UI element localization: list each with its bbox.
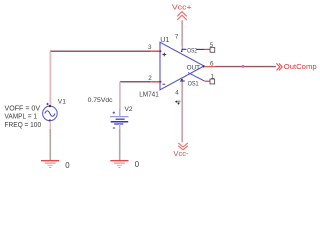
wire pin 4 to Vcc-	[181, 82, 183, 142]
source V1 terminal dots	[49, 105, 51, 107]
pin 1 unconnected square	[210, 79, 215, 84]
svg-text:7: 7	[175, 34, 179, 41]
pin OS1 diagonal	[188, 73, 204, 81]
wire net2 horizontal V2 to pin2	[120, 81, 151, 83]
ground 2 bars	[110, 161, 128, 168]
svg-text:3: 3	[148, 44, 152, 51]
source V2 top stub	[119, 109, 121, 117]
svg-text:LM741: LM741	[139, 90, 159, 98]
wire output horizontal	[216, 66, 276, 68]
svg-text:OS1: OS1	[188, 81, 200, 87]
wire V1 to ground	[49, 121, 51, 130]
power symbol Vcc- chevron	[178, 143, 188, 150]
svg-text:VAMPL = 1: VAMPL = 1	[5, 114, 38, 121]
svg-text:Vcc+: Vcc+	[172, 4, 192, 12]
power symbol Vcc+ chevron	[177, 12, 187, 20]
junction pin2	[159, 81, 161, 83]
pin 3 stub	[151, 50, 160, 52]
svg-text:VOFF = 0V: VOFF = 0V	[5, 106, 41, 113]
pin 7 inner tick	[181, 47, 187, 52]
pin 5 unconnected square	[210, 48, 215, 53]
pin 6 stub	[204, 66, 215, 68]
svg-text:OUT: OUT	[187, 65, 200, 72]
svg-text:4: 4	[175, 89, 179, 96]
wire V2 vertical	[119, 82, 121, 109]
pin 4 inner tick	[180, 78, 185, 82]
source V2 minus mark	[113, 127, 115, 129]
bias marker near pin 4 wire	[175, 101, 180, 105]
junction at output apex	[203, 65, 205, 67]
wire net1 horizontal V1 to pin3	[50, 50, 151, 52]
source V1 sine circle	[43, 106, 58, 121]
pin 2 stub	[151, 81, 160, 83]
svg-text:FREQ = 100: FREQ = 100	[5, 122, 42, 129]
op-amp minus input mark	[162, 83, 165, 85]
ground 1 bars	[41, 161, 59, 168]
wire V2 to ground	[119, 124, 121, 130]
source V2 battery plates	[110, 117, 129, 124]
source V1 sine wave	[45, 111, 55, 117]
svg-text:OutComp: OutComp	[284, 62, 317, 71]
op-amp plus input mark	[162, 53, 166, 57]
svg-text:2: 2	[148, 75, 152, 82]
source V2 plus mark	[113, 112, 115, 114]
svg-text:V1: V1	[58, 99, 66, 106]
wire V1 vertical	[49, 51, 51, 106]
svg-text:0: 0	[65, 161, 70, 170]
junction pin3	[159, 50, 161, 52]
svg-text:V2: V2	[125, 106, 133, 113]
svg-text:0: 0	[135, 160, 140, 169]
svg-text:Vcc-: Vcc-	[173, 150, 189, 158]
junction dot magenta on output wire	[242, 65, 245, 68]
pin OS2 stub	[197, 48, 205, 50]
svg-text:0.75Vdc: 0.75Vdc	[88, 97, 114, 104]
wire Vcc+ to pin 7	[181, 20, 183, 47]
off-page connector chevrons	[277, 63, 283, 70]
source V1 plus mark	[46, 103, 49, 106]
pin OS1 stub	[205, 80, 211, 82]
svg-text:OS2: OS2	[187, 49, 198, 55]
op-amp U1 triangle	[160, 42, 204, 90]
